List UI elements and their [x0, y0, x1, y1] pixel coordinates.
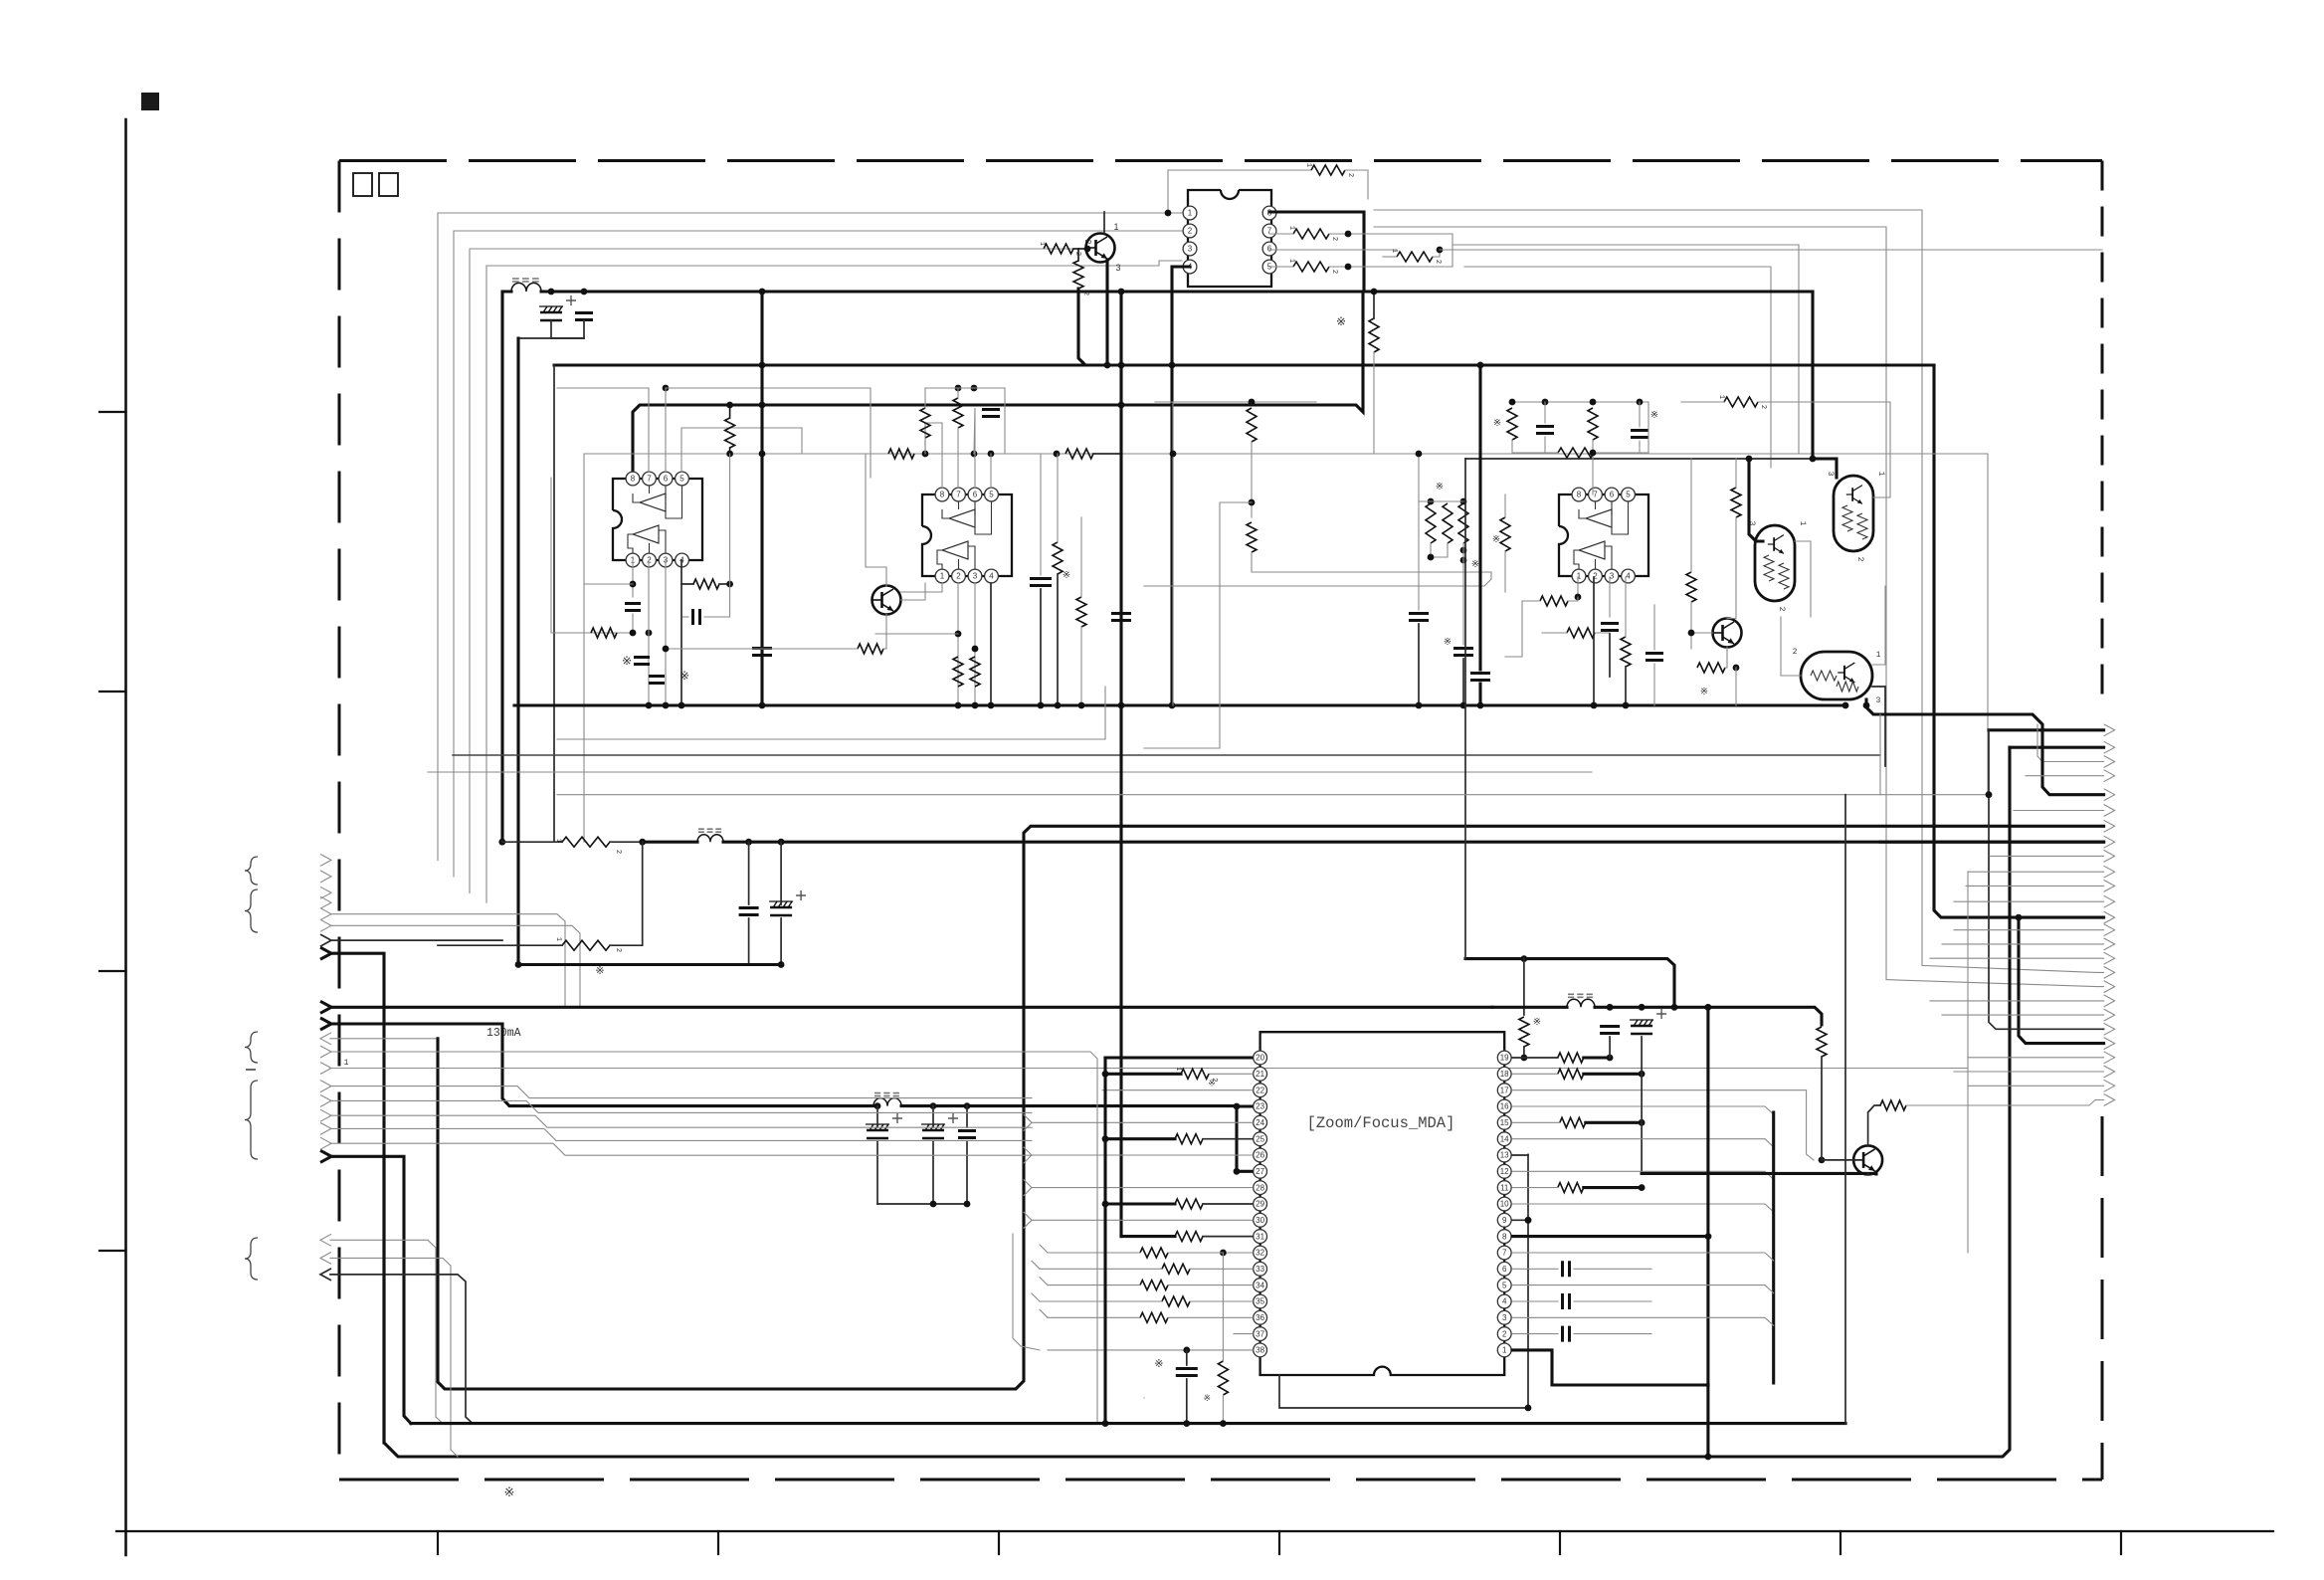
svg-text:13: 13: [1500, 1151, 1509, 1160]
wire: [1735, 459, 1737, 488]
pin 1: [626, 553, 640, 567]
wire: [1542, 632, 1567, 634]
electrolytic capacitor: [922, 1129, 944, 1132]
wire: [1780, 617, 1782, 676]
svg-text:19: 19: [1500, 1054, 1509, 1063]
capacitor at pin4: [1563, 1293, 1570, 1309]
op-amp A triangle: [1586, 509, 1612, 527]
wire stub: [1024, 1147, 1032, 1155]
junction: [759, 402, 766, 409]
bundle rail return to connector: [438, 826, 2104, 1389]
svg-text:1: 1: [1174, 1067, 1182, 1071]
connector group brace: [245, 889, 258, 932]
svg-text:21: 21: [1256, 1070, 1264, 1079]
wire Q3 base: [1691, 632, 1713, 634]
resistor: [1247, 522, 1257, 552]
wire: [1004, 388, 1006, 454]
frame tick: [1278, 1531, 1280, 1554]
svg-text:6: 6: [664, 475, 669, 484]
capacitor: [1453, 649, 1473, 656]
wire: [643, 841, 697, 844]
wire to pill2: [1813, 459, 1837, 478]
wire: [925, 387, 1005, 389]
junction: [1170, 451, 1177, 458]
pin 6: [1262, 242, 1276, 256]
pin 4: [1622, 569, 1636, 583]
capacitor: [625, 604, 641, 611]
wire: [1105, 260, 1108, 365]
wire 130mA feed: [330, 1024, 873, 1106]
frame bottom border line: [116, 1530, 2273, 1532]
wire: [330, 1128, 1032, 1140]
svg-text:7: 7: [956, 491, 961, 499]
wire: [1418, 454, 1420, 501]
wire: [729, 454, 731, 584]
power rail x1717: [1706, 1007, 1709, 1457]
junction: [1639, 1119, 1646, 1126]
junction: [1428, 498, 1435, 505]
pin 1: [1183, 206, 1197, 220]
wire U2 pin2: [957, 583, 959, 705]
pin 12: [1497, 1164, 1511, 1178]
frame tick: [1559, 1531, 1561, 1554]
transistor Q2: [872, 586, 901, 615]
pin 8: [626, 472, 640, 486]
wire pin8: [1512, 1235, 1708, 1238]
junction: [1509, 399, 1516, 406]
junction: [1165, 210, 1172, 217]
connector pin chevron: [2104, 1038, 2115, 1050]
wire: [1906, 1100, 2104, 1106]
resistor: [562, 837, 610, 847]
dual transistor pill Q4: [1755, 525, 1795, 601]
svg-text:2: 2: [647, 556, 652, 565]
transistor inside pill Q5: [1846, 486, 1862, 504]
IC Zoom/Focus_MDA body: [1260, 1032, 1505, 1375]
junction: [930, 1201, 937, 1208]
pin 8: [935, 488, 949, 501]
svg-text:5: 5: [1502, 1281, 1507, 1289]
wire y456 drop: [1987, 454, 1989, 795]
connector pin chevron: [320, 896, 331, 908]
wire pill1 pin1: [1795, 541, 1811, 617]
svg-text:2: 2: [1083, 240, 1092, 245]
pin 4: [985, 569, 999, 583]
svg-text:18: 18: [1500, 1070, 1509, 1079]
pin 29: [1254, 1197, 1267, 1211]
resistor: [1218, 1361, 1228, 1395]
svg-text:3: 3: [973, 572, 978, 581]
junction: [988, 451, 995, 458]
junction: [726, 581, 733, 588]
frame tick: [99, 970, 126, 972]
junction: [1078, 702, 1085, 709]
svg-text:7: 7: [1502, 1249, 1507, 1258]
wire feeder row5: [1866, 699, 2104, 795]
wire: [2014, 810, 2104, 812]
wire: [1872, 586, 1885, 665]
frame tick: [717, 1531, 719, 1554]
wire cap returns: [551, 320, 584, 338]
junction: [1460, 557, 1467, 564]
wire: [1383, 256, 1397, 258]
pin 7: [1262, 224, 1276, 238]
op-amp A triangle: [949, 509, 975, 527]
wire U1 pin6: [666, 388, 871, 478]
sheet corner marker (black square): [141, 93, 159, 110]
wire loop C to DIP pin3: [470, 249, 1079, 892]
wire: [1968, 871, 2104, 873]
connector pin chevron: [2104, 789, 2115, 801]
wire: [1329, 266, 1452, 268]
connector group brace: [245, 1081, 258, 1159]
wire: [1419, 500, 1463, 502]
junction: [759, 362, 766, 369]
wire pin14: [1512, 1139, 1774, 1147]
svg-text:2: 2: [1502, 1329, 1507, 1338]
svg-text:1: 1: [1717, 395, 1725, 399]
wire: [924, 438, 926, 454]
wire: [1048, 1284, 1140, 1286]
wire: [729, 405, 731, 418]
wire: [382, 1156, 385, 1443]
svg-text:1: 1: [1876, 651, 1881, 660]
wire pin22: [1102, 1089, 1253, 1091]
svg-text:※: ※: [1493, 418, 1501, 429]
wire: [1647, 402, 1649, 453]
wire: [681, 616, 688, 618]
connector pin chevron: [320, 1033, 331, 1045]
junction: [1460, 547, 1467, 554]
capacitor C1: [575, 313, 593, 320]
svg-text:12: 12: [1500, 1167, 1509, 1176]
pin 32: [1254, 1246, 1267, 1260]
op-amp U2: [922, 494, 1012, 576]
resistor: [858, 644, 883, 654]
junction: [874, 1102, 881, 1109]
wire: [1252, 552, 1491, 572]
connector pin chevron: [320, 1046, 331, 1058]
wire: [1954, 900, 2104, 902]
connector pin chevron: [320, 908, 331, 920]
pin 13: [1497, 1148, 1511, 1162]
svg-text:2: 2: [614, 850, 622, 854]
wire: [1015, 248, 1044, 250]
wire: [1462, 543, 1464, 572]
wire: [680, 584, 682, 705]
wire: [502, 841, 562, 843]
resistor: [888, 449, 914, 459]
wire: [966, 1141, 968, 1204]
connector pin chevron: [2104, 741, 2115, 753]
connector pin chevron: [2104, 924, 2115, 936]
wire: [1143, 1397, 1145, 1399]
wire U1 pin4: [681, 560, 693, 584]
wire: [1222, 1395, 1224, 1424]
wire: [719, 583, 730, 585]
wire pin33: [1190, 1268, 1253, 1270]
svg-text:2: 2: [1793, 648, 1798, 657]
resistor: [1140, 1281, 1168, 1290]
main supply bus: [541, 290, 1813, 293]
wire: [1930, 957, 2104, 959]
wire: [704, 584, 730, 617]
wire: [1462, 659, 1464, 705]
wire U2 pin6: [974, 408, 975, 488]
electrolytic capacitor: [1631, 1025, 1652, 1028]
power rail x1488: [1478, 365, 1481, 670]
wire: [1040, 589, 1042, 705]
pin 24: [1254, 1115, 1267, 1129]
connector pin chevron: [320, 1122, 331, 1134]
resistor: [1558, 448, 1594, 458]
wire: [1523, 1047, 1525, 1058]
resistor: [1175, 1199, 1203, 1209]
wire: [610, 841, 643, 843]
resistor: [725, 418, 735, 448]
resistor: [1731, 488, 1741, 517]
ground bus: [514, 703, 1845, 706]
wire Q7 collector: [1868, 1105, 1880, 1145]
wire: [1584, 1056, 1610, 1059]
bundle rail x1783: [1772, 1112, 1775, 1383]
wire emitter feed: [1642, 1172, 1876, 1176]
pin 2: [1497, 1327, 1511, 1341]
junction: [1437, 247, 1444, 254]
electrolytic capacitor: [770, 906, 792, 909]
resistor: [1181, 1069, 1209, 1079]
connector pin chevron: [320, 1137, 331, 1149]
junction: [964, 1102, 971, 1109]
inductor L2: [697, 835, 723, 842]
capacitor: [649, 677, 665, 684]
wire stub: [1040, 1309, 1048, 1317]
wire: [1080, 627, 1082, 705]
resistor: [1560, 1117, 1586, 1127]
signal wire y456: [584, 453, 1988, 455]
wire pin26: [1024, 1155, 1253, 1163]
sheet reference square 1: [353, 173, 372, 196]
wire feed down: [516, 338, 519, 965]
svg-text:1: 1: [1304, 163, 1312, 167]
wire: [1511, 440, 1513, 453]
wire: [883, 648, 886, 650]
junction: [1416, 702, 1423, 709]
svg-text:5: 5: [679, 475, 684, 484]
junction: [1863, 702, 1870, 709]
svg-text:2: 2: [1434, 260, 1442, 264]
wire: [1251, 442, 1253, 517]
pin 38: [1254, 1343, 1267, 1357]
wire gray box right: [1967, 872, 1969, 1253]
junction: [971, 451, 978, 458]
wire: [1586, 1121, 1642, 1124]
wire: [1639, 402, 1641, 427]
junction: [930, 1102, 937, 1109]
wire: [1577, 577, 1579, 597]
wire y759: [453, 754, 1880, 756]
capacitor: [1111, 614, 1131, 621]
connector pin chevron: [2104, 1052, 2115, 1064]
dashed border left: [338, 161, 341, 1481]
transistor Q7: [1853, 1145, 1882, 1174]
wire loop D right: [1464, 267, 1771, 468]
wire: [1690, 602, 1692, 649]
resistor in pill: [1764, 555, 1774, 581]
connector pin chevron: [2104, 1094, 2115, 1106]
connector pin chevron: [320, 1094, 331, 1106]
transistor Q1: [1086, 234, 1115, 263]
wire: [1544, 437, 1546, 453]
resistor: [1443, 503, 1452, 543]
svg-text:3: 3: [1826, 472, 1835, 477]
wire: [1942, 943, 2104, 945]
junction: [1249, 499, 1256, 506]
wire: [1222, 1253, 1224, 1361]
op-amp B triangle: [942, 541, 968, 559]
wire Q1 emitter net: [1078, 289, 1165, 365]
wire DIP pin5: [1269, 266, 1293, 268]
resistor in pill: [1811, 671, 1837, 681]
wire: [1505, 601, 1522, 657]
svg-text:4: 4: [989, 572, 994, 581]
wire: [1512, 452, 1558, 454]
svg-text:25: 25: [1256, 1134, 1264, 1143]
junction: [1819, 1157, 1826, 1164]
svg-text:4: 4: [1626, 572, 1631, 581]
wire y589: [1144, 572, 1491, 586]
svg-text:4: 4: [1502, 1297, 1507, 1306]
frame left border line: [124, 119, 127, 1555]
wire: [1593, 577, 1595, 705]
resistor: [1558, 1069, 1584, 1079]
wire branch to row22: [2019, 917, 2104, 1044]
svg-text:1: 1: [1038, 242, 1046, 246]
junction: [1639, 1004, 1646, 1011]
connector pin chevron: [2104, 995, 2115, 1007]
svg-text:2: 2: [614, 948, 622, 952]
junction: [1477, 362, 1484, 369]
wire: [1373, 292, 1375, 318]
dashed border right upper: [2101, 161, 2104, 709]
junction: [1705, 1004, 1712, 1011]
wire: [1504, 551, 1506, 592]
junction: [964, 1201, 971, 1208]
pin 2: [952, 569, 966, 583]
wire: [1653, 664, 1655, 705]
wire pin35: [1190, 1300, 1253, 1302]
wire pin24: [1024, 1122, 1253, 1130]
wire bus2 to connector row14: [1934, 365, 2104, 917]
wire filter3 out: [901, 1104, 1237, 1107]
svg-text:※: ※: [595, 965, 604, 977]
junction: [759, 451, 766, 458]
wire: [330, 1115, 1032, 1127]
svg-text:[Zoom/Focus_MDA]: [Zoom/Focus_MDA]: [1307, 1114, 1455, 1132]
wire: [1144, 502, 1220, 748]
wire: [330, 925, 580, 1007]
wire: [553, 365, 555, 842]
wire: [932, 1106, 934, 1127]
pin 4: [1497, 1294, 1511, 1308]
op-amp B triangle: [633, 525, 659, 543]
wire IC bottom loop: [1279, 1155, 1528, 1409]
svg-text:※: ※: [504, 1484, 515, 1499]
svg-text:5: 5: [989, 491, 994, 499]
resistor: [1426, 503, 1436, 543]
transistor inside pill Q6: [1838, 663, 1854, 683]
connector pin chevron: [320, 1109, 331, 1121]
wire: [1093, 453, 1121, 455]
capacitor: [1601, 624, 1619, 631]
svg-text:8: 8: [1502, 1232, 1507, 1241]
svg-text:3: 3: [1115, 263, 1120, 273]
junction: [581, 289, 588, 296]
resistor: [591, 628, 617, 638]
resistor: [1175, 1232, 1203, 1242]
wire: [330, 1275, 473, 1424]
resistor: [1724, 397, 1758, 407]
wire: [1609, 1037, 1611, 1058]
capacitor: [634, 658, 650, 665]
frame tick: [99, 411, 126, 413]
wire: [1880, 841, 2104, 844]
resistor: [970, 657, 980, 687]
resistor in pill: [1779, 563, 1789, 589]
wire DIP pin4: [1172, 267, 1190, 705]
wire: [1040, 454, 1042, 575]
svg-text:※: ※: [1650, 410, 1658, 421]
capacitor: [1600, 1027, 1620, 1034]
svg-text:1: 1: [940, 572, 945, 581]
resistor: [1175, 1134, 1203, 1144]
connector pin chevron: [320, 871, 331, 883]
connector pin chevron: [2104, 938, 2115, 950]
wire pin1: [1512, 1350, 1708, 1385]
electrolytic capacitor C2: [540, 311, 562, 314]
wire: [1433, 250, 1440, 257]
wire pin25: [1203, 1138, 1253, 1140]
svg-text:1: 1: [1188, 209, 1193, 218]
svg-text:1: 1: [554, 937, 562, 941]
resistor in pill: [1837, 682, 1858, 691]
power rail x1127: [1119, 292, 1122, 1237]
junction: [1637, 399, 1644, 406]
wire filter3 return: [877, 1203, 967, 1205]
junction: [955, 385, 962, 392]
wire Q2 base: [901, 583, 926, 600]
connector pin chevron: [2104, 820, 2115, 832]
wire pill2 pin1: [1873, 402, 1890, 497]
svg-text:35: 35: [1256, 1297, 1264, 1306]
wire DIP pin7: [1269, 233, 1293, 235]
svg-text:7: 7: [647, 475, 652, 484]
junction: [1590, 399, 1597, 406]
wire: [330, 1086, 1032, 1098]
pin 3: [1497, 1310, 1511, 1324]
wire pin38: [1048, 1349, 1253, 1351]
wire: [1641, 1037, 1643, 1074]
wire pin27: [1237, 1170, 1252, 1173]
wire x1179: [1172, 402, 1174, 705]
connector pin chevron: [2104, 850, 2115, 862]
wire: [1186, 1379, 1188, 1424]
connector pin chevron: [320, 1252, 331, 1264]
op-amp B wires: [628, 530, 666, 553]
wire pin13: [1512, 1154, 1528, 1156]
wire pin32: [1223, 1252, 1253, 1254]
capacitor: [739, 908, 759, 915]
